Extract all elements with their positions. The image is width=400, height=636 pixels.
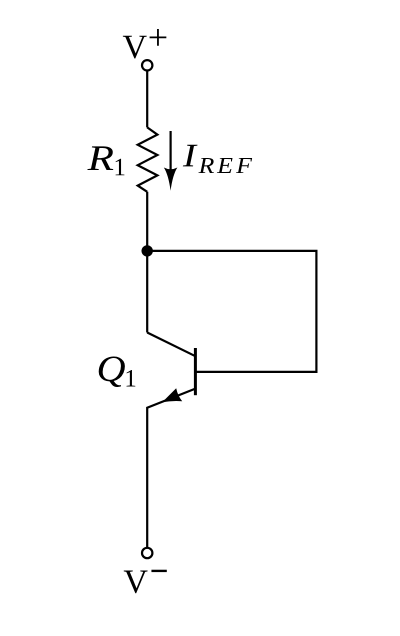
wire from resistor R1 bottom through node A to Q1 collector: [146, 192, 148, 333]
transistor Q1 collector lead: [147, 333, 195, 357]
label V+: [123, 29, 166, 59]
wire from V+ terminal down to resistor R1 top: [146, 71, 148, 128]
wire feedback loop: node A right, down, into Q1 base: [147, 251, 316, 372]
label V-: [124, 570, 167, 594]
label R1: [87, 146, 124, 175]
node A: collector-base junction dot: [142, 245, 153, 256]
label Q1: [99, 357, 136, 388]
transistor Q1 emitter arrow: [162, 388, 182, 402]
resistor R1: [138, 127, 158, 191]
transistor Q1 base bar: [194, 348, 197, 395]
terminal V+ (open circle): [142, 60, 152, 70]
label IREF: [183, 145, 252, 173]
transistor Q1 emitter lead and wire down to V- terminal: [147, 389, 195, 548]
current arrow IREF: [164, 131, 178, 191]
terminal V- (open circle): [142, 548, 152, 558]
